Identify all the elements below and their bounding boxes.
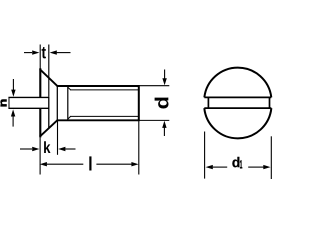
label d1: [232, 157, 239, 167]
slot bottom wall (right end): [48, 97, 50, 109]
thread runout bottom: [68, 116, 71, 119]
thread runout top: [68, 87, 71, 90]
dimension l: line with outward arrows: [40, 162, 139, 166]
label k: [44, 141, 50, 153]
slot top edge: [8, 96, 49, 98]
dimension t: right arrow: [50, 50, 71, 54]
head cone upper edge: [40, 69, 58, 86]
slot end wall right: [269, 97, 271, 108]
label n (rotated): [1, 100, 7, 107]
slot end wall left: [207, 97, 209, 108]
label l: [89, 156, 91, 170]
slot bottom line (t right extension, continues through head): [48, 45, 50, 97]
shank top outline: [57, 85, 140, 87]
head outline lower arc: [204, 108, 271, 138]
dimension d: bottom arrow: [162, 121, 166, 136]
head top face (vertical line) with t extension above: [39, 45, 41, 70]
dimension d: top extension line: [140, 85, 170, 87]
screw end line with l extension below: [138, 85, 140, 121]
thread start line: [67, 86, 69, 120]
dimension n: top arrow: [11, 79, 15, 97]
slot (drawn projecting left of head face): [9, 97, 48, 108]
dimension k: right arrow: [58, 147, 75, 151]
thread root line bottom: [70, 115, 139, 117]
dimension d1: right arrow: [248, 165, 270, 169]
dimension d: bottom extension line: [140, 119, 170, 121]
slot lower edge (chord): [204, 107, 271, 109]
thread root line top: [70, 89, 139, 91]
cone base line across shank (k right extension below): [56, 86, 58, 120]
dimension k: left arrow: [20, 147, 39, 151]
dimension d: top arrow: [162, 70, 166, 86]
label t: [42, 47, 46, 58]
dimension d1: left extension line: [204, 132, 206, 179]
slot left end: [8, 97, 10, 108]
slot bottom edge: [8, 107, 49, 109]
k and l left extension line (below head face): [39, 137, 41, 174]
head outline upper arc: [204, 68, 271, 98]
shank bottom outline: [57, 119, 140, 121]
head cone lower edge: [40, 120, 58, 136]
dimension t: left arrow: [24, 50, 39, 54]
label d (rotated): [155, 98, 169, 109]
slot upper edge (chord): [204, 96, 271, 98]
dimension d1: right extension line: [270, 136, 272, 179]
dimension d1: left arrow: [206, 165, 228, 169]
dimension n: bottom arrow: [11, 109, 15, 126]
